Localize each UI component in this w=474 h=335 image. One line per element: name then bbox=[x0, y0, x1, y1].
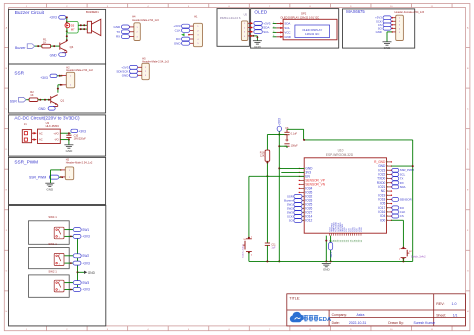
net flag SW4 bottom bbox=[330, 236, 332, 262]
net flag Buzzer U10 left bbox=[294, 199, 302, 203]
svg-text:+3V3: +3V3 bbox=[278, 118, 282, 126]
wire +VO to +3V3 bbox=[60, 132, 70, 134]
svg-text:GND: GND bbox=[38, 107, 46, 111]
svg-text:SSR_PWM: SSR_PWM bbox=[14, 160, 38, 165]
svg-text:28: 28 bbox=[386, 207, 388, 209]
net flag SCL U10 right bbox=[392, 173, 399, 177]
wire SDA DP2 bbox=[273, 23, 277, 25]
svg-text:+VO: +VO bbox=[53, 131, 58, 135]
wire R1 to Q4 base bbox=[51, 45, 60, 47]
header H2 1x2 bbox=[66, 72, 74, 88]
svg-text:35: 35 bbox=[386, 178, 388, 180]
svg-text:12: 12 bbox=[303, 212, 305, 214]
wire GND DP2 bbox=[273, 36, 277, 38]
wire EN column to switch S1 bbox=[248, 176, 250, 237]
pin TXD0 U10 right bbox=[387, 178, 392, 180]
svg-text:38: 38 bbox=[386, 166, 388, 168]
svg-text:SW1: SW1 bbox=[82, 228, 89, 232]
net flag SCK MAX6675 bbox=[383, 19, 391, 23]
junction dot before R1 bbox=[37, 45, 39, 47]
junction dot sw +3V3 bbox=[70, 262, 72, 264]
net flag DO H1 bbox=[182, 37, 190, 41]
wire SW2 row bbox=[64, 255, 73, 257]
svg-text:GND: GND bbox=[376, 30, 382, 34]
pin SENSOR_VP U10 left bbox=[300, 179, 305, 181]
section box SSR_PWM bbox=[9, 157, 106, 204]
ground symbol U5 bbox=[253, 41, 262, 44]
svg-text:VCC: VCC bbox=[284, 31, 290, 35]
svg-text:SW2 1: SW2 1 bbox=[48, 269, 57, 273]
power flag +3V3 acdc bbox=[71, 129, 78, 132]
pin IO34 U10 left bbox=[300, 187, 305, 189]
wire S2 to gnd rail bbox=[402, 259, 404, 262]
svg-text:Header-Male-2.54_1x2: Header-Male-2.54_1x2 bbox=[66, 160, 93, 164]
junction dot right rail gnd bbox=[412, 165, 414, 167]
svg-text:0.1uF: 0.1uF bbox=[291, 133, 298, 136]
svg-text:OLED DISPLAY 128x32 0.91' I2C: OLED DISPLAY 128x32 0.91' I2C bbox=[280, 15, 319, 19]
wire gnd rail bottom bbox=[249, 260, 413, 262]
net flag CS MAX6675 bbox=[383, 23, 391, 27]
svg-text:Q1: Q1 bbox=[60, 98, 64, 102]
svg-text:-VO: -VO bbox=[54, 138, 59, 142]
ground symbol ssr_pwm bbox=[45, 183, 54, 186]
svg-text:H1: H1 bbox=[194, 15, 198, 19]
header U5 1x4 bbox=[241, 21, 247, 41]
wire IO0 to switch S2 bbox=[391, 219, 403, 221]
wire mcu gnd2 pin down bbox=[325, 236, 327, 262]
mcu U10 body bbox=[304, 158, 386, 233]
net flag SCL U5 bbox=[254, 30, 262, 34]
diode D5 M7 bbox=[67, 21, 78, 33]
pin SENSOR_VN U10 left bbox=[300, 183, 305, 185]
svg-text:+3V3: +3V3 bbox=[82, 288, 90, 292]
svg-text:SSR: SSR bbox=[14, 71, 24, 76]
mcu U10 bottom pins bbox=[329, 233, 331, 235]
pin IO21 U10 right bbox=[387, 186, 392, 188]
svg-text:ESP-WROOM-32D: ESP-WROOM-32D bbox=[326, 153, 354, 157]
wire SCL DP2 bbox=[273, 27, 277, 29]
section box Buzzer Circuit bbox=[9, 9, 106, 64]
svg-text:+3V3: +3V3 bbox=[40, 76, 48, 80]
junction dots U5 gnd bbox=[253, 35, 255, 37]
svg-text:SW2: SW2 bbox=[82, 254, 89, 258]
switch S1 symbol bbox=[54, 227, 64, 239]
svg-text:OLED: OLED bbox=[254, 10, 267, 15]
pin IO16 U10 right bbox=[387, 211, 392, 213]
svg-text:SSR_PWM: SSR_PWM bbox=[29, 176, 46, 180]
junction dots gnd rail bbox=[266, 260, 268, 262]
junction dot -VO node bbox=[68, 139, 70, 141]
power flag GND arrow bbox=[77, 271, 79, 273]
net flag SSR U10 left bbox=[294, 195, 302, 199]
svg-text:27: 27 bbox=[386, 212, 388, 214]
wire gnd pin row bbox=[279, 167, 304, 169]
junction dot H2 pin1 bbox=[59, 75, 61, 77]
net flag CLK U10 right bbox=[392, 210, 399, 214]
svg-text:GND: GND bbox=[323, 268, 331, 272]
pin GND DP2 bbox=[276, 36, 283, 38]
net flag SW1 U10 left bbox=[294, 203, 302, 207]
svg-text:SCL: SCL bbox=[263, 30, 269, 34]
pin IO33 U10 left bbox=[300, 199, 305, 201]
header H1 1x5 bbox=[193, 23, 202, 46]
svg-text:Buzzer Circuit: Buzzer Circuit bbox=[15, 10, 45, 15]
net flag +3V3 MAX6675 bbox=[383, 16, 391, 20]
svg-text:1: 1 bbox=[273, 22, 274, 24]
pin IO5 U10 right bbox=[387, 203, 392, 205]
svg-text:M7: M7 bbox=[71, 27, 75, 31]
no-connect arrow H1 pin3 bbox=[181, 33, 184, 36]
pin IO14 U10 left bbox=[300, 215, 305, 217]
svg-text:MAX6675: MAX6675 bbox=[346, 9, 365, 14]
wire EN row bbox=[249, 175, 304, 177]
svg-text:2022-10-31: 2022-10-31 bbox=[349, 321, 366, 325]
svg-text:Company:: Company: bbox=[332, 313, 348, 317]
svg-text:10: 10 bbox=[303, 204, 305, 206]
svg-text:1K: 1K bbox=[30, 93, 33, 97]
svg-text:11: 11 bbox=[303, 208, 305, 210]
svg-text:TITLE:: TITLE: bbox=[289, 296, 300, 300]
svg-text:+3V3: +3V3 bbox=[82, 261, 90, 265]
svg-text:3: 3 bbox=[273, 31, 274, 33]
svg-text:SSR: SSR bbox=[10, 99, 18, 103]
pin RXD0 U10 right bbox=[387, 182, 392, 184]
section box OLED bbox=[251, 9, 339, 49]
section box SSR bbox=[9, 64, 106, 113]
svg-text:Suresh Kumar: Suresh Kumar bbox=[414, 321, 437, 325]
svg-text:HLK-PM03: HLK-PM03 bbox=[46, 124, 60, 128]
net flag SO U10 left bbox=[294, 219, 302, 223]
net flag CS U10 right bbox=[392, 214, 399, 218]
ground symbol mcu bbox=[322, 263, 331, 266]
svg-text:GND: GND bbox=[174, 41, 182, 45]
pin VCC DP2 bbox=[276, 31, 283, 33]
net flag TX U10 right bbox=[392, 177, 399, 181]
net flag SO MAX6675 bbox=[383, 27, 391, 31]
net flag SDA U10 right bbox=[392, 185, 399, 189]
svg-text:Switch_3x4x2: Switch_3x4x2 bbox=[242, 244, 245, 258]
svg-text:4: 4 bbox=[273, 35, 274, 37]
pin R_GND U10 right bbox=[387, 161, 392, 163]
svg-text:G: G bbox=[467, 271, 469, 273]
svg-text:26: 26 bbox=[386, 216, 388, 218]
pin IO23 U10 right bbox=[387, 169, 392, 171]
svg-text:H4: H4 bbox=[132, 15, 136, 19]
svg-text:GND: GND bbox=[46, 187, 54, 191]
svg-text:25: 25 bbox=[386, 220, 388, 222]
svg-text:SENSOR: SENSOR bbox=[400, 197, 412, 201]
svg-text:CS: CS bbox=[400, 214, 404, 218]
net flag SW2 U10 left bbox=[294, 207, 302, 211]
wire -VO down to ground symbol bbox=[68, 140, 70, 145]
section box PWDN bbox=[217, 9, 249, 47]
svg-text:J1: J1 bbox=[24, 122, 27, 126]
net flag +3V3 H1 bbox=[182, 24, 190, 28]
net flag SDA U5 bbox=[254, 26, 262, 30]
wire C6 top loop to right rail bbox=[287, 128, 304, 130]
svg-text:SDA: SDA bbox=[400, 185, 406, 189]
pin IO0 U10 right bbox=[387, 219, 392, 221]
capacitor C10 16V/220uF bbox=[68, 133, 70, 135]
pin GND U10 right bbox=[387, 165, 392, 167]
pin IO17 U10 right bbox=[387, 207, 392, 209]
junction dot +VO node bbox=[68, 132, 70, 134]
junction dot sw +3V3 bbox=[70, 236, 72, 238]
svg-text:CLK: CLK bbox=[175, 29, 181, 33]
net flag +3V3 H5 bbox=[129, 65, 137, 69]
net flag GND H4 bbox=[121, 25, 129, 29]
svg-text:DP2: DP2 bbox=[301, 11, 307, 15]
svg-text:13: 13 bbox=[303, 216, 305, 218]
svg-text:U5: U5 bbox=[244, 13, 248, 17]
svg-text:Sheet:: Sheet: bbox=[436, 313, 446, 317]
header H3 1x5 bbox=[396, 15, 404, 40]
svg-text:Header-Male-2.54_1x3: Header-Male-2.54_1x3 bbox=[132, 18, 159, 22]
svg-text:GND: GND bbox=[114, 25, 122, 29]
junction dot under +3V3 flag bbox=[278, 134, 280, 136]
wire +3V3 bus SW section bbox=[77, 236, 79, 289]
svg-text:1K: 1K bbox=[43, 40, 46, 44]
junction dots on vertical bbox=[278, 145, 280, 147]
ground symbol MAX6675 bbox=[383, 42, 392, 45]
net flag CLK H1 bbox=[182, 29, 190, 33]
svg-text:GND: GND bbox=[254, 45, 262, 49]
title block bbox=[287, 294, 466, 326]
wire +3V3 row bbox=[64, 262, 73, 264]
section box MAX6675 bbox=[343, 9, 415, 48]
junction buzzer pins bbox=[80, 24, 82, 26]
junction dots SSR collector bbox=[60, 84, 62, 86]
svg-text:Buzzer: Buzzer bbox=[15, 46, 26, 50]
pin GND U10 left bbox=[300, 167, 305, 169]
wire 3v3 pin row bbox=[281, 171, 304, 173]
junction dots R2 wire bbox=[39, 99, 41, 101]
power flag +3V3 sw bbox=[73, 234, 81, 238]
wire right rail vertical bbox=[412, 140, 414, 262]
net flag GND H5 bbox=[129, 73, 137, 77]
section box SW bbox=[9, 206, 106, 326]
pin 3V3 U10 left bbox=[300, 171, 305, 173]
header H4 1x3 bbox=[134, 23, 140, 41]
svg-text:GND: GND bbox=[122, 73, 130, 77]
wire R2 to Q1 base bbox=[38, 99, 51, 101]
svg-text:GND: GND bbox=[88, 271, 96, 275]
svg-text:D5: D5 bbox=[71, 23, 75, 27]
net flag RX U10 right bbox=[392, 181, 399, 185]
display DP2 body bbox=[283, 19, 337, 40]
svg-text:39: 39 bbox=[386, 162, 388, 164]
svg-text:Date:: Date: bbox=[332, 321, 340, 325]
svg-text:+3V3: +3V3 bbox=[82, 235, 90, 239]
net flag SDI/SCK H5 bbox=[129, 69, 137, 73]
pin IO32 U10 left bbox=[300, 195, 305, 197]
svg-text:SW4 1: SW4 1 bbox=[48, 215, 57, 219]
net flag SCK U10 left bbox=[294, 215, 302, 219]
svg-text:SCL: SCL bbox=[284, 26, 290, 30]
svg-text:+3V3: +3V3 bbox=[49, 16, 57, 20]
junction dot after R1 bbox=[53, 45, 55, 47]
pin IO12 U10 left bbox=[300, 219, 305, 221]
svg-text:1/1: 1/1 bbox=[453, 313, 458, 317]
svg-text:1: 1 bbox=[59, 264, 60, 266]
svg-text:Astra: Astra bbox=[357, 313, 365, 317]
svg-text:30: 30 bbox=[386, 199, 388, 201]
pin EN U10 left bbox=[300, 175, 305, 177]
switch S2 symbol bbox=[54, 253, 64, 265]
capacitor C11 1uF bbox=[266, 176, 268, 243]
svg-text:G: G bbox=[6, 271, 8, 273]
svg-text:2: 2 bbox=[273, 26, 274, 28]
wire buzzer pins bbox=[78, 24, 87, 26]
svg-text:AC: AC bbox=[39, 138, 43, 142]
junction dot sw +3V3 bbox=[70, 289, 72, 291]
wire Buzzer to R1 bbox=[35, 45, 42, 47]
wire SSR to R2 bbox=[26, 99, 29, 101]
svg-text:33: 33 bbox=[386, 187, 388, 189]
wire +3V3 vertical to gnd rail bbox=[278, 135, 280, 262]
wire S1 to gnd rail bbox=[248, 253, 250, 262]
pin IO25 U10 left bbox=[300, 203, 305, 205]
pin IO26 U10 left bbox=[300, 207, 305, 209]
svg-text:16V/220uF: 16V/220uF bbox=[74, 137, 87, 140]
svg-text:32: 32 bbox=[386, 191, 388, 193]
wire +3V3 row bbox=[64, 289, 73, 291]
svg-text:AC: AC bbox=[39, 131, 43, 135]
svg-text:GND: GND bbox=[50, 53, 58, 57]
wire -VO to gnd node bbox=[60, 139, 69, 141]
wire gnd pin right to rail bbox=[391, 165, 413, 167]
wire H2 pin2 to Q1 collector bbox=[58, 84, 62, 86]
switch S3 symbol bbox=[54, 280, 64, 292]
svg-text:31: 31 bbox=[386, 195, 388, 197]
wire U5 pin4 to ground bbox=[252, 35, 258, 37]
net flag SW1 bbox=[73, 228, 81, 232]
net flag SENSOR U10 right bbox=[392, 198, 399, 202]
svg-text:34: 34 bbox=[386, 182, 388, 184]
svg-text:1: 1 bbox=[59, 237, 60, 239]
wire +3V3 to node bbox=[66, 16, 67, 18]
svg-text:REV:: REV: bbox=[436, 302, 444, 306]
net flag DO U10 right bbox=[392, 206, 399, 210]
wire VCC DP2 bbox=[273, 31, 277, 33]
svg-text:RX: RX bbox=[116, 35, 120, 39]
wire SSR_PWM to H2 pin2 bbox=[59, 176, 61, 178]
svg-text:BUZZER1: BUZZER1 bbox=[86, 10, 99, 14]
junction dot mcu top bbox=[303, 139, 305, 141]
svg-text:EDA: EDA bbox=[319, 317, 332, 323]
svg-text:Header-Female-2.54_1x5: Header-Female-2.54_1x5 bbox=[395, 10, 425, 14]
wire Q4 emitter to GND bbox=[66, 51, 68, 52]
wire C4 bottom to vertical bbox=[279, 145, 287, 147]
svg-text:SW3: SW3 bbox=[82, 281, 89, 285]
svg-text:AC-DC Circuit(220V to 3V3DC): AC-DC Circuit(220V to 3V3DC) bbox=[14, 116, 80, 121]
svg-text:1.0: 1.0 bbox=[452, 302, 457, 306]
pin IO27 U10 left bbox=[300, 211, 305, 213]
net flag GND H1 bbox=[182, 41, 190, 45]
header H5 1x3 bbox=[142, 63, 150, 79]
svg-text:PZ254-1-04-2.0 S: PZ254-1-04-2.0 S bbox=[220, 16, 241, 20]
pin IO19 U10 right bbox=[387, 194, 392, 196]
pin IO35 U10 left bbox=[300, 191, 305, 193]
pin IO18 U10 right bbox=[387, 198, 392, 200]
net flag SW3 bbox=[73, 281, 81, 285]
svg-text:128x32 I2C: 128x32 I2C bbox=[305, 32, 319, 36]
wire Q1 emitter to GND bbox=[57, 105, 59, 107]
svg-text:12K: 12K bbox=[260, 155, 265, 158]
svg-text:GND: GND bbox=[384, 46, 392, 50]
svg-text:Q4: Q4 bbox=[70, 45, 74, 49]
svg-text:IO0: IO0 bbox=[380, 218, 385, 222]
svg-text:GND: GND bbox=[284, 35, 290, 39]
svg-text:37: 37 bbox=[386, 170, 388, 172]
pin NC U10 right bbox=[387, 190, 392, 192]
svg-text:1uF: 1uF bbox=[271, 247, 276, 250]
power flag +3V3 sw bbox=[73, 288, 81, 292]
svg-text:SW1 1: SW1 1 bbox=[48, 242, 57, 246]
svg-text:SW4: SW4 bbox=[329, 252, 333, 258]
svg-text:Switch_3x4x2: Switch_3x4x2 bbox=[411, 256, 426, 259]
net flag SW3 U10 left bbox=[294, 211, 302, 215]
header H2b 1x2 bbox=[65, 167, 73, 180]
wire +3V3 node to R16 column bbox=[267, 134, 279, 136]
pin IO4 U10 right bbox=[387, 215, 392, 217]
wire SW3 row bbox=[64, 282, 73, 284]
junction dot gnd2 bbox=[325, 240, 327, 242]
svg-text:+3V3: +3V3 bbox=[78, 129, 86, 133]
svg-text:Drawn By:: Drawn By: bbox=[388, 321, 404, 325]
svg-text:GND: GND bbox=[66, 149, 74, 153]
svg-text:36: 36 bbox=[386, 174, 388, 176]
wire H2 pin1 to ground bbox=[51, 169, 61, 171]
wire +3V3 to H2 pin1 bbox=[57, 75, 62, 77]
pin SCL DP2 bbox=[276, 27, 283, 29]
transistor Q4 bbox=[60, 41, 67, 51]
pin SDA DP2 bbox=[276, 23, 283, 25]
svg-text:SDA: SDA bbox=[284, 22, 290, 26]
node buzzer collector wire dots bbox=[66, 16, 68, 18]
pin IO22 U10 right bbox=[387, 173, 392, 175]
ground symbol acdc bbox=[64, 145, 73, 148]
net flag RX H4 bbox=[121, 35, 129, 39]
net flag TX H4 bbox=[121, 30, 129, 34]
svg-text:29: 29 bbox=[386, 203, 388, 205]
power flag +3V3 sw bbox=[73, 261, 81, 265]
section box AC-DC bbox=[9, 115, 106, 156]
svg-text:Header-Male-2.54_1x2: Header-Male-2.54_1x2 bbox=[66, 68, 93, 72]
svg-text:14: 14 bbox=[303, 220, 305, 222]
svg-text:1: 1 bbox=[59, 290, 60, 292]
junction dots R16 bbox=[266, 162, 268, 164]
wire SW1 row bbox=[64, 229, 73, 231]
transistor Q1 bbox=[51, 95, 58, 105]
easyeda logo bbox=[290, 312, 304, 322]
wire +3V3 row bbox=[64, 235, 73, 237]
svg-text:IO12: IO12 bbox=[305, 219, 312, 223]
wire GND MAX6675 bbox=[387, 31, 392, 33]
net flag SW2 bbox=[73, 254, 81, 258]
net flag +3V3 U5 bbox=[254, 21, 262, 25]
svg-text:TX: TX bbox=[116, 30, 120, 34]
junction dot ssr_pwm bbox=[61, 176, 63, 178]
svg-text:100uF: 100uF bbox=[291, 144, 299, 147]
net flag SSR_PWM U10 right bbox=[392, 168, 399, 172]
